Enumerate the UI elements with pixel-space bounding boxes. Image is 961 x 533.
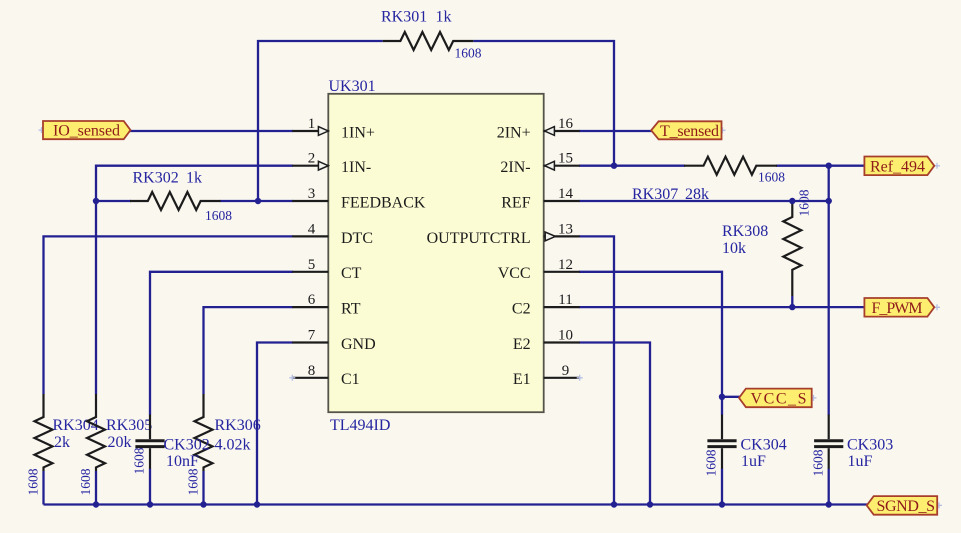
svg-text:4: 4 — [308, 221, 316, 237]
svg-text:OUTPUTCTRL: OUTPUTCTRL — [427, 230, 531, 247]
svg-text:FEEDBACK: FEEDBACK — [341, 194, 426, 211]
pin 16 (2IN+) — [497, 116, 580, 141]
svg-text:6: 6 — [308, 292, 316, 308]
net label F_PWM — [864, 298, 934, 317]
svg-text:1608: 1608 — [811, 449, 826, 476]
svg-text:DTC: DTC — [341, 230, 373, 247]
svg-text:IO_sensed: IO_sensed — [53, 123, 120, 140]
svg-text:CT: CT — [341, 265, 362, 282]
net label VCC_S — [739, 389, 812, 408]
wire: FEEDBACK pin3 row through RK302 — [96, 200, 131, 202]
junction: rail RK305 — [93, 501, 99, 507]
IC U K301 TL494ID body — [328, 94, 543, 412]
junction: rail pin10 drop — [647, 501, 653, 507]
resistor RK307 28k (horizontal, Ref row) — [632, 157, 785, 203]
wire: RK301 top feedback run left — [258, 41, 383, 201]
resistor RK304 2k (vertical) — [26, 394, 99, 496]
svg-text:1uF: 1uF — [741, 453, 766, 470]
svg-text:5: 5 — [308, 257, 316, 273]
wire: CK303 bottom to ground rail — [828, 469, 830, 505]
wire: pin15 2IN- to RK307 — [579, 165, 685, 167]
svg-text:1: 1 — [308, 116, 316, 132]
svg-text:1608: 1608 — [78, 468, 93, 495]
wire: SGND ground rail — [44, 503, 868, 505]
wire: pin5 CT left run and drop to CK302 — [150, 272, 293, 415]
wire: pin7 GND left run and drop to rail — [257, 343, 293, 505]
svg-text:3: 3 — [308, 186, 316, 202]
svg-text:SGND_S: SGND_S — [877, 498, 936, 515]
svg-text:VCC: VCC — [498, 265, 531, 282]
svg-text:12: 12 — [558, 257, 573, 273]
net label T_sensed — [651, 121, 721, 140]
junction: RK308 top on REF line — [789, 198, 795, 204]
junction: REF line to vertical — [826, 198, 832, 204]
wire: RK308 bottom blue stub — [791, 296, 793, 307]
svg-text:VCC_S: VCC_S — [751, 390, 807, 407]
svg-text:2IN-: 2IN- — [500, 159, 530, 176]
wire: RK304 bottom to ground rail — [42, 471, 44, 505]
wire: RK305 bottom to ground rail — [95, 471, 97, 505]
svg-text:T_sensed: T_sensed — [660, 123, 719, 140]
pin 5 (CT) — [292, 257, 361, 282]
svg-text:CK304: CK304 — [741, 436, 787, 453]
svg-text:C1: C1 — [341, 371, 360, 388]
junction: rail CK303 — [826, 501, 832, 507]
svg-text:CK303: CK303 — [847, 436, 893, 453]
svg-text:15: 15 — [558, 151, 573, 167]
resistor RK305 20k (vertical) — [78, 394, 152, 496]
svg-text:1uF: 1uF — [848, 453, 873, 470]
resistor RK308 10k (vertical, REF to C2) — [722, 189, 812, 296]
svg-text:4.02k: 4.02k — [215, 436, 251, 453]
wire: pin16 2IN+ to T_sensed — [579, 130, 652, 132]
svg-text:E2: E2 — [513, 336, 531, 353]
wire: Ref net vertical drop to CK303 — [828, 166, 830, 415]
wire: CK302 bottom to ground rail — [149, 469, 151, 505]
svg-text:2k: 2k — [54, 434, 70, 451]
pin 11 (C2) — [512, 292, 580, 317]
svg-text:1IN+: 1IN+ — [341, 124, 375, 141]
resistor RK302 1k (horizontal, feedback row) — [130, 169, 232, 223]
svg-text:16: 16 — [558, 116, 574, 132]
capacitor CK303 1uF (vertical) — [811, 415, 894, 477]
wire: RK302 right to pin3 — [220, 200, 293, 202]
wire: pin13 OUTPUTCTRL drop to rail — [579, 236, 614, 504]
resistor RK306 4.02k (vertical) — [186, 394, 261, 496]
svg-text:1608: 1608 — [205, 208, 232, 223]
pin 8 (C1) — [292, 363, 359, 388]
pin 15 (2IN-) — [500, 151, 579, 176]
svg-text:1608: 1608 — [132, 447, 147, 474]
svg-text:10k: 10k — [722, 240, 746, 257]
junction: RK301 vertical on pin15 wire — [611, 163, 617, 169]
svg-text:1608: 1608 — [758, 170, 785, 185]
svg-text:TL494ID: TL494ID — [330, 417, 390, 434]
svg-text:Ref_494: Ref_494 — [870, 158, 925, 175]
pin 1 (1IN+) — [292, 116, 375, 141]
svg-text:GND: GND — [341, 336, 376, 353]
svg-text:2IN+: 2IN+ — [497, 124, 531, 141]
net label SGND_S — [867, 496, 938, 515]
capacitor CK304 1uF (vertical) — [704, 415, 787, 477]
wire: VCC_S tap — [722, 396, 740, 398]
svg-text:1608: 1608 — [455, 46, 482, 61]
pin 6 (RT) — [292, 292, 360, 317]
svg-text:RK308: RK308 — [722, 223, 768, 240]
svg-text:11: 11 — [558, 292, 572, 308]
svg-text:UK301: UK301 — [329, 78, 376, 95]
wire: pin11 C2 row to F_PWM — [579, 306, 865, 308]
wire: pin4 DTC left run and drop to RK304 — [44, 236, 294, 394]
svg-text:C2: C2 — [512, 301, 531, 318]
svg-text:RK302: RK302 — [133, 169, 179, 186]
svg-text:8: 8 — [308, 363, 316, 379]
svg-text:13: 13 — [558, 221, 573, 237]
wire: REF pin14 row — [579, 200, 829, 202]
junction: rail pin13 drop — [611, 501, 617, 507]
svg-text:RK301: RK301 — [381, 9, 427, 26]
svg-text:1608: 1608 — [797, 189, 812, 216]
svg-text:1608: 1608 — [704, 449, 719, 476]
net label Ref_494 — [864, 157, 934, 176]
svg-text:RT: RT — [341, 301, 361, 318]
junction: rail CK304 — [719, 501, 725, 507]
junction: rail RK306 — [200, 501, 206, 507]
anchor cross marks (pale blue) — [39, 127, 943, 508]
pin 2 (1IN-) — [292, 151, 371, 176]
svg-text:RK307: RK307 — [632, 186, 678, 203]
wire: pin6 RT left run and drop to RK306 — [204, 307, 294, 394]
wire: RK301 top feedback run right — [473, 41, 614, 166]
svg-text:28k: 28k — [685, 186, 709, 203]
capacitor CK302 10nF (vertical) — [132, 415, 210, 475]
svg-text:RK306: RK306 — [215, 417, 261, 434]
svg-text:14: 14 — [558, 186, 574, 202]
wire: CK304 bottom to ground rail — [721, 469, 723, 505]
svg-text:1608: 1608 — [26, 468, 41, 495]
svg-text:CK302: CK302 — [164, 436, 210, 453]
pin 7 (GND) — [292, 328, 375, 353]
pin 12 (VCC) — [498, 257, 580, 282]
svg-text:F_PWM: F_PWM — [872, 300, 923, 317]
svg-text:9: 9 — [562, 363, 570, 379]
pin 14 (REF) — [501, 186, 579, 211]
junction: Ref_494 corner — [826, 163, 832, 169]
svg-text:10: 10 — [558, 328, 573, 344]
pin 4 (DTC) — [292, 221, 373, 246]
net label IO_sensed — [43, 121, 131, 140]
junction: VCC_S tap — [719, 394, 725, 400]
junction: rail GND pin7 — [254, 501, 260, 507]
junction: rail CK302 — [147, 501, 153, 507]
pin 10 (E2) — [513, 328, 580, 353]
wire: RK307 right to Ref_494 — [776, 165, 865, 167]
svg-text:2: 2 — [308, 151, 316, 167]
wire: pin12 VCC run and drop to CK304 — [579, 272, 722, 415]
junction: RK308 bottom on F_PWM line — [789, 304, 795, 310]
junction: RK302 right / RK301 vertical — [255, 198, 261, 204]
pin 13 (OUTPUTCTRL) — [427, 221, 580, 246]
svg-text:E1: E1 — [513, 371, 531, 388]
pin 9 (E1) — [513, 363, 580, 388]
resistor RK301 1k (horizontal, top) — [381, 9, 482, 61]
svg-text:REF: REF — [501, 194, 530, 211]
wire: pin1 1IN+ from IO_sensed — [130, 130, 294, 132]
wire: pin10 E2 run and drop to rail — [579, 343, 650, 505]
svg-text:1k: 1k — [436, 9, 452, 26]
svg-text:20k: 20k — [108, 434, 132, 451]
svg-text:1k: 1k — [186, 169, 202, 186]
pin 3 (FEEDBACK) — [292, 186, 426, 211]
junction: RK302 left / pin2 net — [93, 198, 99, 204]
wire: RK306 bottom to ground rail — [202, 471, 204, 505]
wire: pin2 1IN- left run and drop to RK305 — [96, 166, 293, 394]
svg-text:1608: 1608 — [186, 468, 201, 495]
svg-text:7: 7 — [308, 328, 316, 344]
svg-text:RK305: RK305 — [106, 417, 152, 434]
svg-text:10nF: 10nF — [166, 453, 199, 470]
svg-text:1IN-: 1IN- — [341, 159, 371, 176]
